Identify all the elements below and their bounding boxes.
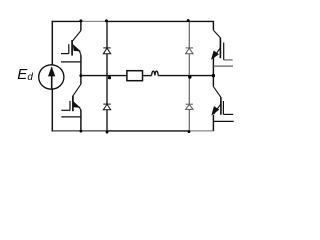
wire left branch upper	[51, 21, 53, 65]
transistor Q3 (IGBT top-right)	[212, 21, 233, 75]
wire left diode leg middle	[106, 54, 108, 104]
wire bottom rail middle segment	[107, 130, 189, 132]
junction dot mid wire / D1-D2 leg	[108, 76, 111, 79]
diode D2 (bottom-left freewheel)	[103, 104, 110, 110]
wire bottom rail left segment	[52, 130, 107, 132]
junction dot mid wire / Q1-Q2 leg	[79, 74, 82, 77]
junction dot top rail / Q1 collector	[79, 19, 82, 22]
junction dot bottom rail / D2 leg	[106, 131, 109, 134]
diode D1 (top-left freewheel)	[103, 48, 110, 54]
junction dot bottom rail / Q2 emitter	[80, 130, 83, 133]
wire right diode leg upper (gray)	[188, 21, 190, 48]
wire top rail left segment	[52, 20, 81, 22]
wire left diode leg upper	[106, 21, 108, 48]
wire left diode leg lower	[106, 110, 108, 132]
inductor L load coil	[152, 71, 159, 75]
junction dot top rail / D3 leg	[187, 19, 190, 22]
diode D4 (bottom-right freewheel, gray)	[186, 104, 193, 109]
transistor Q4 (IGBT bottom-right)	[212, 76, 234, 131]
junction dot mid wire / D3-D4 leg	[188, 75, 191, 78]
wire right diode leg lower (gray)	[188, 109, 190, 130]
wire bottom rail right gray segment	[189, 130, 214, 132]
current source Ed circle	[39, 65, 64, 89]
wire top rail gray middle segment	[81, 20, 107, 22]
node B: mid wire right segment	[158, 75, 213, 77]
current source Ed arrow	[48, 66, 55, 89]
wire right diode leg middle (gray)	[188, 54, 190, 104]
junction dot mid wire / Q3-Q4 leg	[212, 74, 215, 77]
diode D3 (top-right freewheel, gray)	[186, 48, 193, 54]
resistor R load box	[127, 71, 143, 81]
transistor Q1 (IGBT top-left)	[61, 21, 81, 75]
junction dot top rail / D1 leg	[105, 19, 108, 22]
wire between resistor and inductor	[143, 75, 152, 77]
junction dot bottom rail / D4 leg	[188, 130, 191, 133]
wire top rail right segment	[107, 20, 214, 22]
transistor Q2 (IGBT bottom-left)	[61, 76, 81, 131]
wire left branch lower	[51, 89, 53, 131]
node A: mid wire left segment	[81, 75, 127, 77]
